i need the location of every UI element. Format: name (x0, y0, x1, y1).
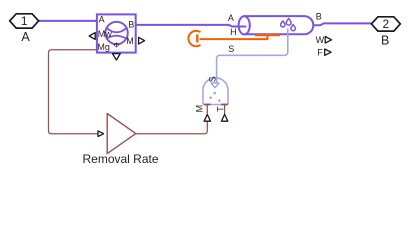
svg-text:Mg: Mg (97, 42, 110, 52)
svg-text:Removal Rate: Removal Rate (82, 152, 158, 166)
svg-text:F: F (317, 48, 323, 58)
svg-text:B: B (316, 12, 322, 22)
svg-text:1: 1 (21, 14, 28, 28)
svg-text:S: S (228, 44, 234, 54)
svg-text:A: A (21, 30, 30, 44)
svg-text:Φ: Φ (113, 41, 119, 50)
svg-text:B: B (381, 34, 389, 48)
svg-text:S: S (207, 76, 217, 82)
svg-text:M: M (126, 36, 134, 46)
svg-text:B: B (128, 19, 134, 29)
svg-text:M: M (195, 105, 205, 113)
svg-text:W: W (316, 35, 325, 45)
svg-text:T: T (215, 106, 225, 112)
svg-text:Mw: Mw (98, 29, 112, 39)
svg-text:A: A (99, 14, 105, 24)
svg-text:2: 2 (382, 17, 389, 31)
svg-text:A: A (228, 13, 234, 23)
svg-text:H: H (230, 27, 237, 37)
